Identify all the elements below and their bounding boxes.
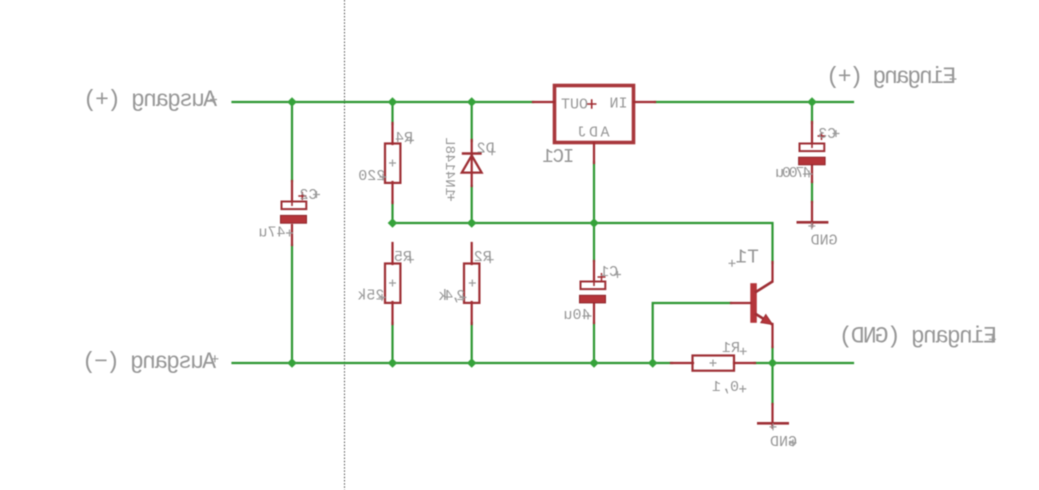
- R4 lead bottom: [391, 182, 393, 203]
- net label Eingang (+): [826, 64, 956, 90]
- R5 lead top: [391, 243, 393, 264]
- R4 name label: [395, 130, 413, 147]
- svg-text:40u: 40u: [563, 307, 590, 324]
- capacitor C2 positive plate: [282, 202, 307, 210]
- C1 name anchor cross: [614, 271, 621, 278]
- C2 polarity plus (red): [298, 192, 306, 200]
- R1 lead right: [734, 362, 755, 364]
- R2 name label: [474, 249, 492, 266]
- R1 value label 0,1: [712, 379, 739, 396]
- svg-text:R1: R1: [722, 340, 740, 357]
- svg-text:0,1: 0,1: [712, 379, 739, 396]
- Eingang (GND) anchor cross: [989, 336, 996, 343]
- resistor R1 body (horizontal): [693, 356, 735, 371]
- C3 lead top: [811, 122, 813, 146]
- junction minus rail / C2: [287, 358, 297, 368]
- GND2 label anchor cross: [790, 439, 797, 446]
- net label Ausgang (+): [83, 87, 217, 113]
- D2 value anchor cross: [448, 194, 455, 201]
- R1 origin cross: [710, 360, 717, 367]
- svg-text:47u: 47u: [258, 225, 285, 242]
- diode D2 cathode bar: [462, 152, 482, 155]
- Ausgang (+) anchor cross: [210, 96, 217, 103]
- wire R2 branch lower: [471, 323, 473, 363]
- junction GND node at R1/T1: [768, 358, 778, 368]
- wire output (-) rail left of R1: [233, 362, 673, 364]
- svg-text:25k: 25k: [357, 288, 384, 305]
- R1 lead left: [671, 362, 693, 364]
- R4 lead top: [391, 123, 393, 144]
- svg-text:Ausgang (−): Ausgang (−): [82, 349, 216, 375]
- IC1 name label: [542, 146, 574, 168]
- C3 value label 4700u: [775, 165, 811, 182]
- junction minus rail / R5: [388, 358, 398, 368]
- GND2 origin cross: [770, 423, 777, 430]
- IC1 pin label ADJ: [578, 124, 610, 141]
- wire input (+) rail right of IC1: [655, 101, 853, 103]
- diode D2 triangle: [462, 156, 482, 173]
- IC1 pin label IN: [609, 96, 627, 113]
- wire GND rail to GND2 symbol: [771, 363, 773, 404]
- net label Ausgang (-): [82, 349, 216, 375]
- ground GND1 pin: [811, 202, 813, 227]
- C2 value label 47u: [258, 225, 285, 242]
- wire D2 branch upper: [471, 102, 473, 141]
- R5 value anchor cross: [379, 294, 386, 301]
- R4 origin cross: [389, 160, 396, 167]
- C2 value anchor cross: [286, 230, 293, 237]
- svg-text:C2: C2: [299, 187, 317, 204]
- ground GND2 pin: [771, 404, 773, 428]
- GND2 label: [770, 434, 797, 451]
- wire C1 branch lower: [593, 323, 595, 363]
- wire C1 branch upper: [593, 223, 595, 261]
- svg-text:T1: T1: [735, 246, 758, 268]
- R2 value label 2,4k: [438, 288, 465, 305]
- D2 value label 1N4148 (vertical): [441, 137, 457, 196]
- junction output rail / R4: [388, 97, 398, 107]
- wire R4 branch lower: [391, 202, 393, 223]
- Ausgang (-) anchor cross: [211, 355, 218, 362]
- svg-text:IN: IN: [609, 96, 627, 113]
- capacitor C2 negative plate: [281, 215, 307, 223]
- junction minus rail / T1 base branch: [648, 358, 658, 368]
- C3 name anchor cross: [833, 130, 840, 137]
- junction ADJ rail / D2-R2: [467, 218, 477, 228]
- wire C3 branch lower: [811, 182, 813, 202]
- junction ADJ rail / C1: [589, 218, 599, 228]
- D2 lead top: [471, 140, 473, 155]
- C3 name label: [818, 126, 836, 143]
- ground GND1 bar: [797, 221, 829, 224]
- D2 lead through triangle: [471, 155, 473, 186]
- C3 pin tick into plate: [811, 143, 813, 148]
- junction minus rail / C1: [589, 358, 599, 368]
- svg-text:Ausgang (+): Ausgang (+): [83, 87, 217, 113]
- C3 lead bottom: [811, 165, 813, 182]
- C1 value anchor cross: [585, 313, 592, 320]
- wire ADJ pin to rail: [593, 163, 595, 224]
- R4 name anchor cross: [407, 137, 414, 144]
- R2 origin cross: [469, 280, 476, 287]
- transistor T1 base bar: [750, 283, 757, 323]
- capacitor C1 negative plate: [580, 295, 606, 303]
- C2 lead top: [291, 181, 293, 205]
- capacitor C1 positive plate: [581, 282, 606, 290]
- C1 pin tick into plate: [593, 281, 595, 286]
- svg-text:R5: R5: [394, 249, 412, 266]
- T1 base lead: [731, 302, 751, 304]
- IC1 pin IN: [634, 101, 655, 103]
- C2 pin tick into plate: [291, 201, 293, 206]
- capacitor C3 positive plate: [800, 144, 825, 152]
- R4 value anchor cross: [380, 174, 387, 181]
- C1 lead top: [593, 261, 595, 284]
- Eingang (+) anchor cross: [950, 76, 957, 83]
- C1 value label 40u: [563, 307, 590, 324]
- GND1 origin cross: [808, 223, 815, 230]
- svg-text:OUT: OUT: [561, 96, 588, 113]
- svg-text:IC1: IC1: [542, 146, 574, 168]
- T1 emitter arrow: [761, 315, 773, 325]
- R1 name anchor cross: [740, 348, 747, 355]
- wire R4 branch upper: [391, 102, 393, 124]
- C2 lead bottom: [291, 225, 293, 245]
- R1 value anchor cross: [739, 385, 746, 392]
- wire GND rail right of R1: [755, 362, 854, 364]
- svg-text:R2: R2: [474, 249, 492, 266]
- R4 value label 220: [358, 168, 385, 185]
- capacitor C3 negative plate: [799, 157, 826, 165]
- svg-text:2,4k: 2,4k: [438, 288, 465, 305]
- svg-text:C3: C3: [818, 126, 836, 143]
- junction ADJ rail / R4-R5: [388, 218, 398, 228]
- R5 name label: [394, 249, 412, 266]
- svg-text:C1: C1: [600, 264, 618, 281]
- T1 name anchor cross: [729, 260, 736, 267]
- svg-text:1N4148L: 1N4148L: [441, 137, 457, 196]
- svg-text:ADJ: ADJ: [578, 124, 610, 141]
- R5 value label 25k: [357, 288, 384, 305]
- sheet frame dashed divider: [344, 0, 346, 490]
- R5 origin cross: [389, 280, 396, 287]
- svg-text:Eingang (+): Eingang (+): [826, 64, 956, 90]
- wire T1 base to GND rail: [653, 303, 731, 363]
- net label Eingang (GND): [839, 323, 997, 349]
- T1 emitter lead: [771, 324, 773, 347]
- R1 name label: [722, 340, 740, 357]
- svg-text:Eingang (GND): Eingang (GND): [839, 323, 997, 349]
- wire T1 emitter to GND rail: [771, 347, 773, 363]
- junction output rail / D2: [467, 97, 477, 107]
- T1 collector diagonal: [755, 282, 773, 293]
- wire C3 branch upper: [811, 102, 813, 123]
- C3 polarity plus (red): [818, 132, 826, 140]
- R5 lead bottom: [391, 302, 393, 324]
- resistor R5 body: [385, 264, 400, 303]
- svg-text:GND: GND: [811, 233, 838, 250]
- C2 name label: [299, 187, 317, 204]
- wire R5 branch lower: [391, 323, 393, 363]
- C2 name anchor cross: [313, 191, 320, 198]
- R2 value anchor cross: [459, 294, 466, 301]
- D2 name anchor cross: [489, 148, 496, 155]
- wire output (+) rail left of IC1: [233, 101, 534, 103]
- C1 lead bottom: [593, 303, 595, 323]
- junction output rail / C2: [287, 97, 297, 107]
- junction minus rail / R2: [467, 358, 477, 368]
- T1 collector lead: [771, 262, 773, 282]
- wire D2 branch lower: [471, 186, 473, 223]
- IC1 pin OUT: [533, 101, 554, 103]
- T1 name label: [735, 246, 758, 268]
- resistor R4 body: [385, 144, 400, 183]
- IC1 origin mark (red +): [587, 99, 597, 109]
- R2 lead bottom: [471, 302, 473, 324]
- R2 lead top: [471, 243, 473, 264]
- wire C2 branch upper: [291, 102, 293, 181]
- C1 polarity plus (red): [598, 273, 606, 281]
- R2 name anchor cross: [487, 256, 494, 263]
- T1 emitter diagonal: [755, 314, 773, 325]
- wire C2 branch lower: [291, 245, 293, 363]
- resistor R2 body: [464, 264, 479, 303]
- wire ADJ rail to T1 collector: [393, 223, 773, 263]
- regulator IC1 body: [555, 86, 634, 143]
- IC1 pin label OUT: [561, 96, 588, 113]
- C3 value anchor cross: [806, 171, 813, 178]
- junction input rail / C3: [807, 97, 817, 107]
- D2 name label: [477, 141, 495, 158]
- C1 name label: [600, 264, 618, 281]
- ground GND2 bar: [757, 422, 789, 425]
- IC1 pin ADJ: [593, 143, 595, 163]
- GND1 label: [811, 233, 838, 250]
- R5 name anchor cross: [407, 256, 414, 263]
